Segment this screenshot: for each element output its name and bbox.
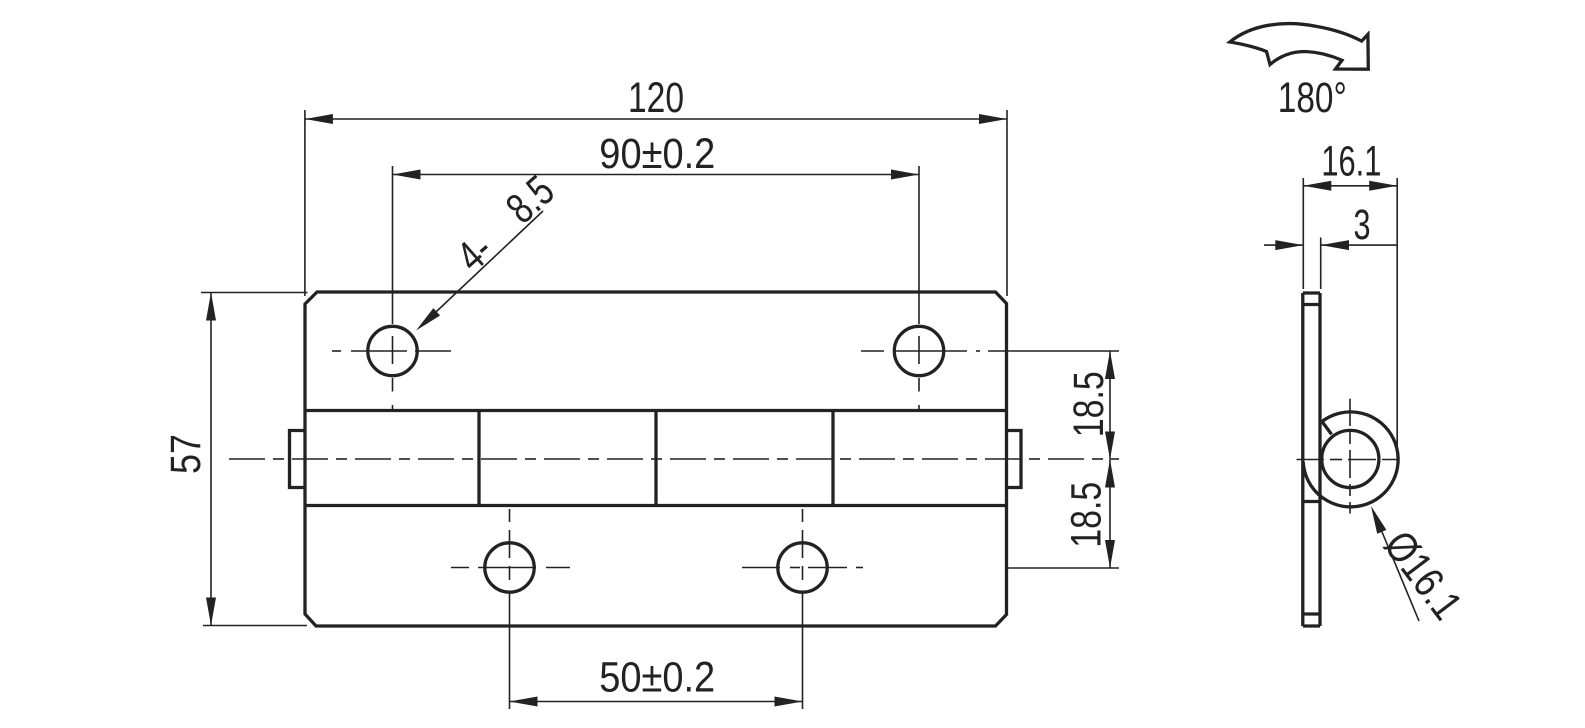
knuckle divider 3 <box>831 411 834 506</box>
centerline cross hole bottom-left <box>451 509 570 580</box>
svg-text:3: 3 <box>1354 201 1371 249</box>
centerline cross hole bottom-right <box>742 509 863 580</box>
dimension 16.1 <box>1303 138 1397 458</box>
rotation arrow 180° <box>1230 24 1369 70</box>
side view centerlines <box>1297 399 1400 514</box>
knuckle divider 1 <box>477 411 480 506</box>
side view: knuckle curl outer arc <box>1303 412 1398 507</box>
knuckle divider 2 <box>654 411 657 506</box>
side view: pin circle <box>1322 430 1379 487</box>
knuckle band top line <box>305 409 1007 412</box>
svg-text:16.1: 16.1 <box>1321 138 1381 186</box>
centerline cross hole top-right <box>861 336 980 411</box>
svg-text:120: 120 <box>628 74 684 122</box>
hole top-right <box>894 326 943 375</box>
knuckle band bottom line <box>305 504 1007 507</box>
dimension 57 <box>162 293 308 626</box>
dimension 120 <box>305 74 1007 296</box>
dimension 90±0.2 <box>393 130 920 324</box>
svg-text:18.5: 18.5 <box>1065 371 1113 437</box>
dimension 3 <box>1264 201 1397 289</box>
leader Ø16.1 <box>1371 506 1471 629</box>
svg-text:50±0.2: 50±0.2 <box>599 653 715 701</box>
side view: curl hook line <box>1322 422 1332 435</box>
hole bottom-left <box>485 543 534 592</box>
leader 4-ø8.5 <box>416 167 564 331</box>
pin tab left <box>290 431 306 488</box>
dimension 18.5 upper <box>988 351 1119 568</box>
dimension 18.5 lower <box>1008 460 1119 569</box>
main horizontal centerline <box>229 458 1119 460</box>
dimension 50±0.2 <box>510 592 803 709</box>
side view: leaf plate <box>1303 293 1320 626</box>
svg-text:57: 57 <box>162 434 210 474</box>
centerline cross hole top-left <box>332 336 451 411</box>
front view: hinge plate outline with chamfered corners <box>305 292 1007 626</box>
svg-text:18.5: 18.5 <box>1063 482 1111 548</box>
hole top-left <box>368 326 417 375</box>
svg-text:90±0.2: 90±0.2 <box>599 130 715 178</box>
svg-text:180°: 180° <box>1278 74 1347 122</box>
pin tab right <box>1007 431 1022 488</box>
hole bottom-right <box>778 543 827 592</box>
